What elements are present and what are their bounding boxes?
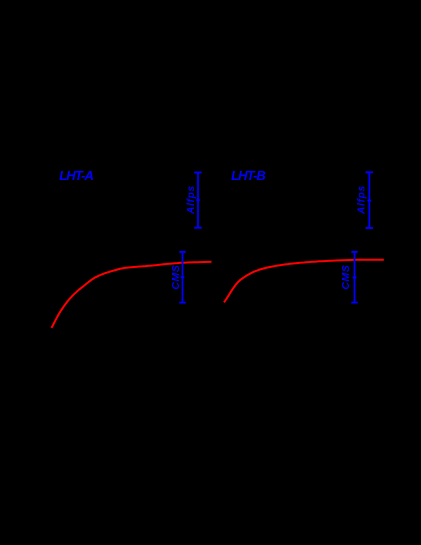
svg-text:CMS: CMS [340, 265, 352, 290]
svg-text:LHT-A: LHT-A [59, 168, 93, 183]
svg-text:LHT-B: LHT-B [231, 168, 265, 183]
svg-text:Alfps: Alfps [357, 185, 368, 215]
svg-text:CMS: CMS [170, 265, 182, 290]
svg-text:Alfps: Alfps [186, 185, 197, 215]
